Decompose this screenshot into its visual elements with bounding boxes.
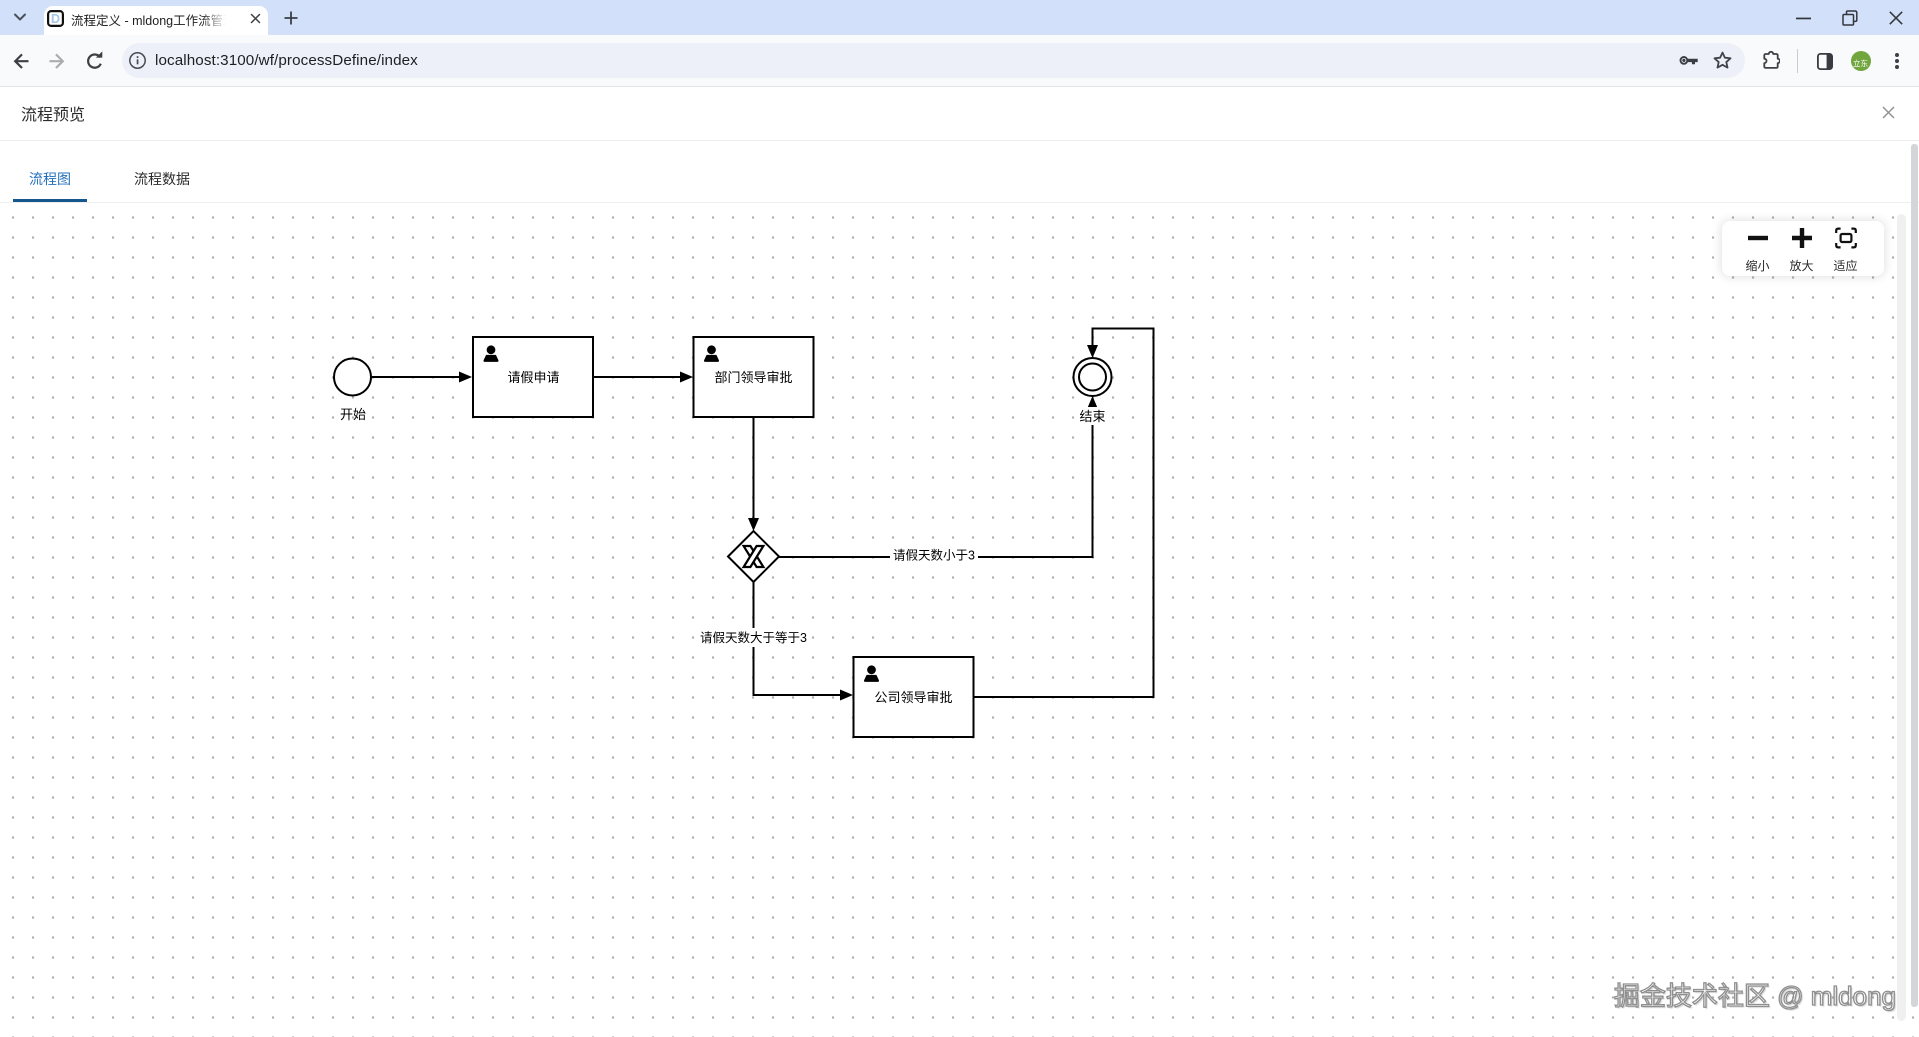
tab title <box>71 10 229 28</box>
task 公司领导审批 <box>854 657 974 737</box>
wire flow3 task2->gateway <box>753 417 755 518</box>
reload <box>84 51 104 71</box>
svg-text:请假天数大于等于3: 请假天数大于等于3 <box>700 630 807 645</box>
start event circle <box>334 359 371 396</box>
modal header <box>0 87 1919 141</box>
wire flow5 gateway->task3 (label 请假天数大于等于3) <box>754 582 841 695</box>
tab search chevron <box>13 12 27 23</box>
end event double circle <box>1074 358 1112 396</box>
side panel icon <box>1817 53 1833 70</box>
svg-text:结束: 结束 <box>1079 409 1105 424</box>
svg-text:请假申请: 请假申请 <box>507 370 559 385</box>
modal close x <box>1882 106 1895 119</box>
extensions puzzle <box>1762 48 1780 70</box>
task 请假申请 <box>473 337 593 417</box>
svg-text:开始: 开始 <box>340 407 366 422</box>
inner scrollbar <box>1897 214 1906 1021</box>
info icon <box>129 52 146 69</box>
avatar <box>1851 51 1871 71</box>
kebab menu <box>1893 50 1901 72</box>
window restore <box>1842 10 1858 26</box>
window minimize <box>1796 17 1812 20</box>
svg-text:D: D <box>51 12 60 26</box>
task 部门领导审批 <box>694 337 814 417</box>
star icon <box>1713 51 1732 70</box>
url text <box>155 52 418 69</box>
wire flow1 start->task1 <box>371 376 459 378</box>
wire flow6 task3->end <box>974 329 1154 698</box>
svg-text:公司领导审批: 公司领导审批 <box>874 690 952 705</box>
favicon <box>47 10 64 27</box>
new tab plus <box>284 11 298 25</box>
zoom controls <box>1722 221 1884 276</box>
key icon <box>1679 53 1699 71</box>
wire flow2 task1->task2 <box>593 376 680 378</box>
svg-text:请假天数小于3: 请假天数小于3 <box>893 548 975 563</box>
tab close x <box>250 13 261 24</box>
browser tab strip <box>0 0 1919 35</box>
forward arrow (disabled) <box>45 51 65 71</box>
active browser tab <box>44 6 268 35</box>
back arrow <box>12 51 32 71</box>
separator <box>1797 49 1798 73</box>
gateway diamond <box>728 531 779 582</box>
url pill <box>122 43 1745 78</box>
tabs row <box>0 141 1919 203</box>
svg-text:部门领导审批: 部门领导审批 <box>714 370 792 385</box>
browser toolbar <box>0 35 1919 87</box>
outer scrollbar thumb <box>1911 144 1918 1007</box>
wire flow4 gateway->end (label 请假天数小于3) <box>779 409 1093 557</box>
watermark <box>1614 976 1896 1013</box>
window close <box>1889 11 1903 25</box>
